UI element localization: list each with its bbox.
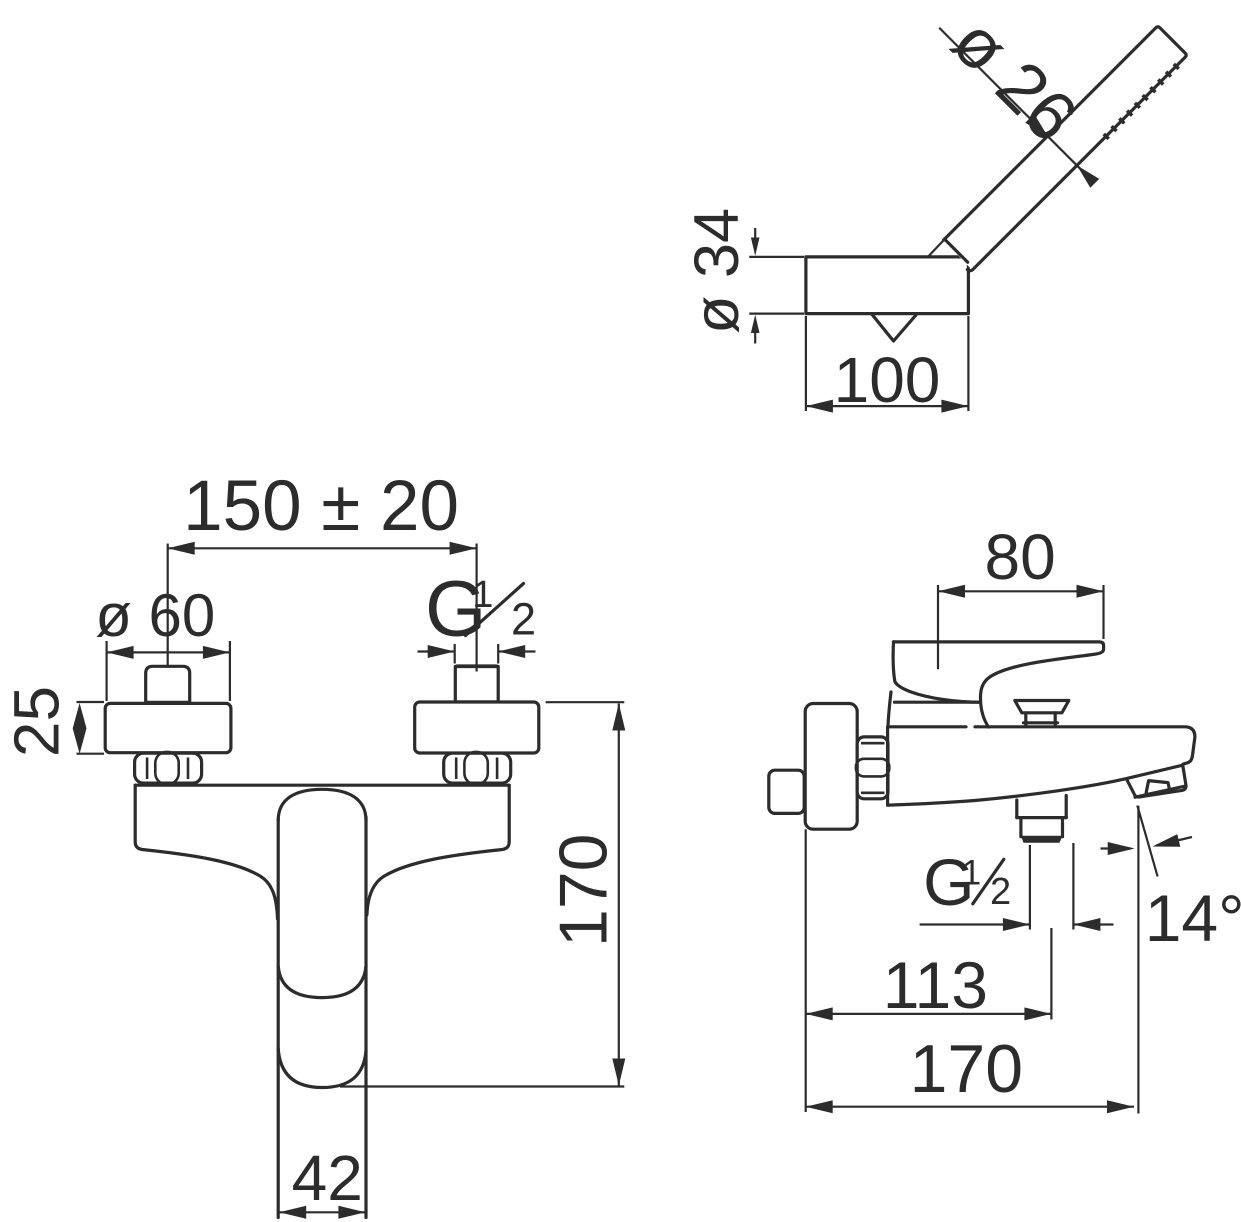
- svg-text:170: 170: [545, 834, 621, 947]
- svg-text:80: 80: [985, 521, 1056, 593]
- svg-text:25: 25: [0, 686, 72, 757]
- svg-text:42: 42: [292, 1142, 363, 1214]
- svg-text:14°: 14°: [1145, 881, 1241, 955]
- svg-text:1: 1: [962, 854, 981, 893]
- svg-text:2: 2: [511, 594, 536, 645]
- svg-text:170: 170: [910, 1031, 1023, 1107]
- svg-text:113: 113: [883, 948, 988, 1022]
- svg-text:100: 100: [834, 344, 941, 416]
- svg-text:ø 60: ø 60: [95, 582, 215, 649]
- svg-text:150 ± 20: 150 ± 20: [183, 467, 459, 546]
- svg-text:ø 34: ø 34: [682, 208, 752, 334]
- svg-text:1: 1: [472, 574, 493, 616]
